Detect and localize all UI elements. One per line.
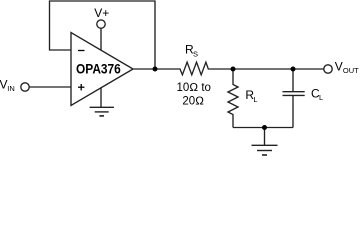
svg-text:IN: IN <box>7 84 15 93</box>
svg-text:OUT: OUT <box>343 66 359 75</box>
svg-text:V: V <box>335 60 343 74</box>
svg-text:L: L <box>253 95 257 104</box>
svg-text:10Ω to: 10Ω to <box>177 82 211 94</box>
svg-text:S: S <box>193 50 198 59</box>
svg-text:20Ω: 20Ω <box>182 96 204 108</box>
svg-text:V+: V+ <box>94 6 109 20</box>
svg-text:OPA376: OPA376 <box>76 61 121 76</box>
svg-text:L: L <box>319 93 323 102</box>
